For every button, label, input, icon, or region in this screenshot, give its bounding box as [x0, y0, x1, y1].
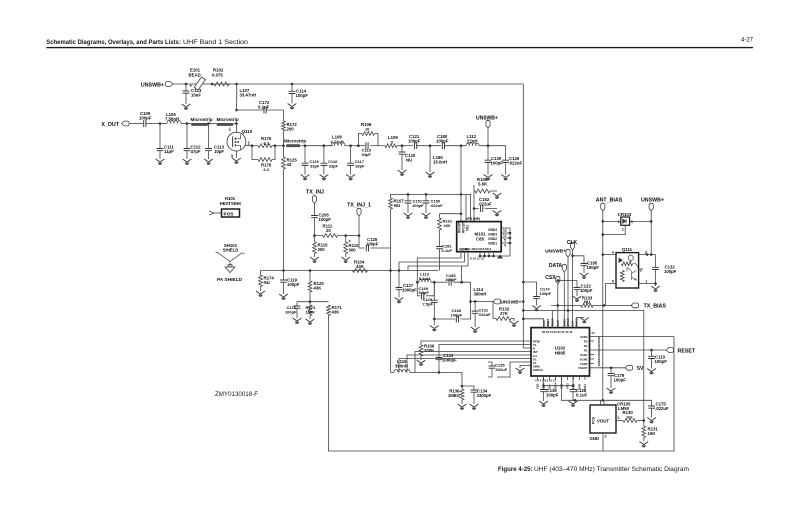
resistor R171 43K: [327, 305, 343, 316]
svg-text:VAR4OPVDDRVARBUF: VAR4OPVDDRVARBUF: [597, 336, 601, 367]
node L113 left: [416, 281, 419, 284]
svg-text:10: 10: [365, 126, 370, 131]
ground R132: [510, 321, 519, 327]
svg-text:4-27: 4-27: [741, 37, 754, 43]
node C133 bottom: [438, 371, 441, 374]
microstrip 3: [284, 139, 306, 147]
svg-text:.022uF: .022uF: [478, 312, 491, 317]
svg-text:43K: 43K: [314, 286, 323, 291]
ferrite bead E101: [189, 68, 206, 91]
node bus/feed cross: [460, 193, 463, 196]
wire L106 to microstrip: [181, 123, 191, 125]
net X_OUT input: [101, 121, 129, 128]
wire U101 feed verticals: [465, 194, 467, 221]
svg-text:390nH: 390nH: [395, 364, 408, 369]
svg-text:200: 200: [444, 223, 451, 228]
ground DNC3: [577, 318, 589, 324]
node TX_INJ_1 join: [358, 234, 361, 237]
ground C112: [183, 159, 192, 165]
ground C110: [647, 369, 656, 375]
capacitor C179 100pF: [608, 368, 627, 388]
resistor R104 43K: [352, 260, 368, 273]
node C116: [323, 144, 326, 147]
svg-text:1: 1: [645, 279, 647, 283]
capacitor C111 11pF: [157, 124, 175, 160]
svg-text:100pF: 100pF: [655, 359, 668, 364]
wire L112 to C126: [479, 145, 506, 147]
svg-text:12: 12: [503, 234, 507, 238]
svg-text:VSEXT: VSEXT: [578, 366, 588, 370]
svg-text:100pF: 100pF: [285, 310, 297, 315]
capacitor C180 100pF: [436, 134, 449, 149]
node L113 right: [433, 281, 436, 284]
svg-text:100pF: 100pF: [412, 203, 424, 208]
svg-text:5: 5: [612, 279, 614, 283]
net TX_INJ: [306, 190, 324, 204]
resistor R111 20: [315, 224, 346, 238]
svg-text:NU: NU: [406, 158, 412, 163]
resistor R110 300: [313, 236, 329, 257]
ground C152: [493, 211, 502, 217]
capacitor C129 7.5pF: [422, 282, 437, 319]
U101 bottom fanout 1: [417, 252, 461, 283]
ground R136: [458, 404, 467, 410]
svg-text:7.5pF: 7.5pF: [423, 302, 434, 307]
svg-text:100pF: 100pF: [587, 265, 600, 270]
capacitor C125 100pF: [366, 237, 379, 251]
ground C195: [580, 273, 589, 279]
wire Q111 pin3: [639, 253, 656, 256]
svg-text:390nH: 390nH: [474, 292, 487, 297]
wire ANC feed: [522, 318, 544, 321]
wire U102 bottom caps: [542, 376, 574, 387]
svg-text:SHIELD: SHIELD: [223, 248, 239, 253]
svg-text:CLK: CLK: [567, 240, 578, 246]
ground C115: [301, 175, 310, 181]
wire CR103 pin1: [602, 220, 621, 223]
U102 bottom pin labels: [535, 376, 587, 389]
wire CR103 pin3: [630, 220, 653, 223]
capacitor C174 100pF: [522, 281, 552, 306]
svg-text:UNSWB+: UNSWB+: [641, 197, 664, 203]
svg-text:RESET: RESET: [678, 348, 696, 354]
svg-text:GND: GND: [589, 436, 599, 441]
svg-text:9 10 11 12: 9 10 11 12: [470, 257, 484, 261]
capacitor C109 100pF: [139, 111, 152, 127]
resistor R174 NU: [259, 271, 275, 292]
header rule: [46, 47, 753, 48]
svg-text:43K: 43K: [356, 264, 365, 269]
node UNSWB+/L107: [235, 83, 238, 86]
ground C116: [320, 175, 329, 181]
capacitor C205 100pF: [311, 213, 331, 236]
svg-text:POS: POS: [592, 416, 596, 424]
svg-text:5V: 5V: [637, 366, 644, 372]
resistor R125 43: [282, 146, 298, 271]
svg-text:Microstrip: Microstrip: [191, 117, 213, 122]
capacitor C134 3300pF: [462, 386, 492, 404]
wire C125 to rail: [371, 248, 391, 271]
capacitor C152 .022uF: [474, 197, 497, 212]
inductor L113 5.6nH parallel capacitor C169 5.6pF: [417, 271, 434, 299]
inductor L180 15.0nH: [430, 146, 447, 172]
svg-text:100pF: 100pF: [287, 282, 300, 287]
wire UNSWB+ right drop: [650, 211, 652, 255]
node C110: [650, 349, 653, 352]
node L180: [429, 144, 432, 147]
svg-text:POS: POS: [224, 212, 235, 218]
ground R112: [341, 257, 350, 263]
ground C171: [293, 318, 302, 324]
wire microstrip3 out: [302, 145, 334, 147]
svg-text:200K: 200K: [424, 348, 435, 353]
svg-text:47pF: 47pF: [191, 149, 201, 154]
capacitor C195 100pF: [571, 255, 599, 274]
wire mid rail: [471, 300, 494, 302]
capacitor C130 100pF: [485, 146, 504, 175]
resistor R136 1MEG: [448, 386, 464, 404]
svg-text:ANT_BIAS: ANT_BIAS: [596, 197, 623, 203]
svg-text:4.22nH: 4.22nH: [331, 139, 344, 144]
U102 left pin labels: [533, 339, 543, 372]
svg-text:PA SHIELD: PA SHIELD: [217, 277, 243, 283]
resistor R132 27K: [493, 301, 514, 321]
ground R109: [417, 360, 426, 366]
svg-text:VB1: VB1: [466, 225, 470, 231]
page number: [741, 37, 754, 43]
node R130/R131: [643, 419, 646, 422]
wire microstrip1 to microstrip2: [208, 123, 217, 125]
node C113: [207, 122, 210, 125]
svg-text:GND1: GND1: [488, 242, 497, 246]
wire LM50 gnd pin: [602, 433, 604, 451]
svg-text:0.1uF: 0.1uF: [258, 105, 270, 110]
wire C180 to L112: [445, 145, 467, 147]
svg-text:15.0nH: 15.0nH: [433, 160, 447, 165]
svg-text:33pF: 33pF: [355, 164, 365, 169]
svg-text:GND2: GND2: [488, 237, 497, 241]
capacitor C126 .022uF: [502, 146, 522, 175]
net UNSWB+ input: [141, 82, 173, 89]
ground C128: [569, 401, 578, 407]
svg-text:R3: R3: [584, 339, 588, 343]
node C150: [425, 193, 428, 196]
svg-text:100pF: 100pF: [139, 115, 152, 120]
wire CLK bus: [572, 250, 574, 321]
ground R105: [493, 193, 502, 199]
svg-text:TX_BIAS: TX_BIAS: [644, 304, 667, 310]
svg-text:CSX: CSX: [545, 275, 556, 281]
inductor L114 390nH: [471, 282, 487, 301]
capacitor C185 100pF: [434, 273, 470, 286]
ground R174: [256, 291, 265, 297]
svg-text:5.6nH: 5.6nH: [419, 276, 430, 281]
capacitor C121 100pF: [408, 134, 421, 149]
capacitor C135 .022uF: [488, 362, 531, 377]
U102 left gnd stub: [516, 366, 531, 374]
wire to R136 node: [461, 372, 463, 386]
shield SH101: [216, 243, 245, 273]
wire microstrip2 to gate node: [234, 123, 237, 125]
svg-text:X_OUT: X_OUT: [101, 122, 119, 128]
net UNSWB+ right: [641, 197, 664, 211]
wire Q110 drain out: [245, 145, 258, 147]
wire L109 to C121: [397, 145, 413, 147]
U102 right pin stubs: [590, 341, 595, 364]
svg-text:100pF: 100pF: [664, 269, 677, 274]
svg-text:UHF (403–470 MHz) Transmitter: UHF (403–470 MHz) Transmitter Schematic …: [534, 467, 689, 473]
wire UNSWB+ down to line: [487, 128, 489, 146]
wire CSX bus: [557, 284, 559, 321]
inductor L108 4.22nH: [331, 135, 346, 146]
svg-text:13: 13: [503, 229, 507, 233]
resistor R130 10K: [616, 410, 644, 422]
wire TX_INJ down: [314, 204, 316, 216]
net RESET: [666, 348, 696, 355]
heatsink H101 POS: [209, 196, 242, 218]
svg-text:.022uF: .022uF: [430, 203, 443, 208]
node C205/R111: [313, 234, 316, 237]
ground C175: [647, 418, 656, 424]
node R120: [309, 269, 312, 272]
inductor L115 390nH: [391, 359, 462, 372]
svg-text:NC1 NC2 NC3 NC4: NC1 NC2 NC3 NC4: [465, 247, 492, 251]
capacitor C133 1000pF: [436, 345, 531, 373]
resistor R120 43K: [308, 271, 324, 302]
microstrip 2: [217, 117, 239, 126]
wire R112 node to TX_INJ_1: [346, 235, 359, 237]
label PA SHIELD: [217, 277, 243, 283]
capacitor C114 100pF: [289, 84, 309, 104]
U102 right pin labels: [578, 331, 601, 370]
svg-text:VF1 (NP): VF1 (NP): [466, 217, 480, 221]
node R172/main line: [282, 144, 285, 147]
capacitor C128 0.1uF: [570, 386, 588, 401]
figure caption: [498, 467, 689, 473]
ground C174: [532, 306, 541, 312]
net DATA: [549, 263, 567, 272]
resistor R107 NU: [389, 194, 405, 248]
wire L108 to R106 block: [345, 145, 358, 147]
microstrip 1: [191, 117, 213, 126]
ground C134: [470, 404, 479, 410]
svg-text:Schematic Diagrams, Overlays,: Schematic Diagrams, Overlays, and Parts …: [46, 40, 181, 46]
net CLK: [567, 240, 578, 250]
svg-text:27K: 27K: [500, 311, 509, 316]
capacitor C172 0.1uF: [237, 100, 284, 113]
wire TX_INJ_1 down: [359, 216, 365, 248]
resistor R161 200: [438, 212, 463, 246]
capacitor C136 100pF: [540, 386, 559, 401]
node rail/C125 drop: [389, 269, 392, 272]
svg-text:BEAD: BEAD: [189, 72, 201, 77]
svg-text:5: 5: [504, 239, 506, 243]
svg-text:ZMY0130018-F: ZMY0130018-F: [215, 392, 258, 398]
U102 left pin line RFIN: [523, 347, 531, 349]
ground R110: [310, 257, 319, 263]
resistor R112 300: [344, 236, 359, 257]
transistor Q111: [612, 247, 647, 288]
svg-text:Q111: Q111: [622, 247, 633, 252]
inductor L107 33.47nH: [237, 84, 256, 110]
node C129 bottom: [433, 318, 436, 321]
wire TX_BIAS: [593, 304, 631, 307]
svg-text:0.1uF: 0.1uF: [442, 248, 453, 253]
svg-text:0.1uF: 0.1uF: [576, 393, 588, 398]
svg-text:UNSWB+: UNSWB+: [476, 116, 498, 122]
ground C114: [288, 104, 297, 110]
node C152: [473, 207, 476, 210]
capacitor C123 10uF: [183, 84, 202, 105]
svg-text:Figure 4-25:: Figure 4-25:: [498, 467, 533, 473]
resistor R172 200: [282, 110, 298, 146]
svg-text:7.56nH: 7.56nH: [165, 117, 179, 122]
svg-text:11pF: 11pF: [164, 149, 174, 154]
wire CR103 pin2: [602, 225, 626, 236]
ground Q110 source: [232, 151, 241, 164]
svg-text:1: 1: [618, 220, 620, 224]
voltage regulator U105 LM50 VOUT box: [590, 401, 631, 439]
wire bias rail: [261, 270, 439, 272]
wire R171 down to loop bottom: [329, 316, 675, 452]
svg-text:43K: 43K: [332, 310, 341, 315]
wire TEMP line: [522, 309, 644, 420]
node C117: [349, 144, 352, 147]
svg-text:10K: 10K: [648, 431, 657, 436]
ground C111: [156, 159, 165, 165]
svg-text:UNSWB+: UNSWB+: [141, 82, 164, 88]
svg-text:33pF: 33pF: [310, 164, 320, 169]
svg-text:100pF: 100pF: [614, 378, 627, 383]
resistor R176 6.2 parallel: [252, 146, 275, 172]
svg-text:GND3: GND3: [488, 233, 497, 237]
svg-text:300: 300: [318, 247, 326, 252]
svg-text:100pF: 100pF: [580, 288, 593, 293]
svg-text:6.2: 6.2: [264, 140, 270, 145]
capacitor C132 100pF: [652, 255, 677, 284]
svg-text:.022uF: .022uF: [655, 406, 669, 411]
capacitor C119 100pF: [280, 271, 300, 295]
ground C122: [573, 296, 582, 302]
wire LM50 pin1: [600, 400, 602, 405]
net TX_INJ_1: [347, 203, 371, 217]
svg-text:300: 300: [349, 248, 357, 253]
net UNSWB+ bus: [545, 249, 570, 258]
ground C150: [422, 213, 431, 219]
svg-text:100pF: 100pF: [366, 242, 379, 247]
svg-text:26 25 24 23 22 21 20 19: 26 25 24 23 22 21 20 19: [542, 330, 573, 334]
svg-text:3: 3: [631, 220, 633, 224]
inductor L112 22nH: [466, 134, 479, 146]
svg-text:GND4: GND4: [488, 228, 497, 232]
svg-text:TX_INJ_1: TX_INJ_1: [347, 203, 371, 209]
op-amp U102 H995 synthesizer IC: [531, 328, 590, 376]
node C120: [401, 144, 404, 147]
ground C132: [651, 284, 660, 292]
capacitor C175 .022uF: [648, 400, 669, 417]
ground C179: [607, 388, 616, 394]
capacitor C110 100pF: [648, 350, 667, 369]
U101 bottom NC stubs: [470, 252, 510, 261]
wire R108 block out: [378, 145, 385, 147]
svg-text:R1: R1: [584, 348, 588, 352]
ground C113: [204, 159, 213, 165]
U102 left pin line 4: [415, 352, 531, 373]
wire C125-node drop to L115: [390, 271, 392, 373]
wire X_OUT to C109: [129, 123, 143, 125]
svg-text:2: 2: [618, 416, 620, 420]
svg-text:NU: NU: [584, 300, 590, 305]
resistor R175 6.2: [258, 136, 272, 148]
svg-text:CR103: CR103: [618, 212, 632, 217]
op-amp U101 M101 C85 driver IC: [457, 217, 502, 252]
ground C117: [346, 175, 355, 181]
header title: [46, 40, 248, 46]
wire Q111 pin1 to gnd: [639, 282, 657, 285]
ground C123: [182, 104, 191, 110]
wire C121 to C180: [417, 145, 441, 147]
node C179: [610, 367, 613, 370]
svg-text:100pF: 100pF: [540, 291, 552, 296]
svg-text:.022uF: .022uF: [509, 160, 523, 165]
resistor R173 150K: [306, 302, 316, 319]
svg-text:33pF: 33pF: [362, 152, 372, 157]
svg-text:F1B: F1B: [536, 384, 540, 389]
wire BPOS bus: [567, 257, 569, 321]
svg-text:100pF: 100pF: [319, 217, 332, 222]
net UNSWB+ at PA output: [476, 116, 498, 129]
svg-text:DATA: DATA: [549, 263, 563, 269]
ground C131: [471, 327, 480, 333]
wire DATA bus: [563, 272, 565, 321]
svg-text:10uF: 10uF: [191, 93, 201, 98]
svg-text:Microstrip: Microstrip: [284, 139, 306, 144]
capacitor C131 .022uF: [472, 301, 492, 327]
svg-text:3300pF: 3300pF: [477, 393, 492, 398]
node U101 feed tap: [460, 144, 463, 221]
net ANT_BIAS: [596, 197, 623, 211]
U101 bottom fanout 3: [408, 252, 468, 271]
node C131: [474, 300, 477, 303]
svg-text:UNSWB+: UNSWB+: [501, 300, 522, 306]
capacitor C115 33pF: [302, 146, 320, 175]
svg-text:VOUT: VOUT: [597, 419, 610, 424]
capacitor C181 0.1uF: [436, 244, 452, 271]
ground C129 node: [430, 319, 439, 331]
ground C120: [398, 170, 407, 176]
svg-text:100pF: 100pF: [436, 138, 449, 143]
svg-text:22nH: 22nH: [467, 138, 478, 143]
wire 5V row: [590, 367, 626, 369]
node TEMP/BPOS cross: [567, 309, 570, 312]
svg-text:Microstrip: Microstrip: [217, 117, 239, 122]
U102 left pin line 6: [399, 359, 531, 373]
svg-text:VAR4: VAR4: [580, 335, 588, 339]
wire UNSWB+ rail drop: [522, 84, 524, 348]
svg-text:5.6pF: 5.6pF: [419, 290, 430, 295]
wire C109 to L106: [146, 123, 167, 125]
capacitor C112 47pF: [184, 124, 202, 160]
resistor R133 NU: [551, 296, 593, 308]
node R136/C134: [461, 385, 464, 388]
capacitor C171 100pF: [285, 302, 300, 318]
resistor R102 0.075: [212, 68, 231, 86]
svg-text:4 5 6 7 8 9 10 11: 4 5 6 7 8 9 10 11: [535, 379, 556, 383]
svg-text:33.47nH: 33.47nH: [240, 93, 256, 98]
node C111: [159, 122, 162, 125]
svg-text:VLNB: VLNB: [580, 357, 588, 361]
svg-text:C85: C85: [476, 237, 485, 242]
